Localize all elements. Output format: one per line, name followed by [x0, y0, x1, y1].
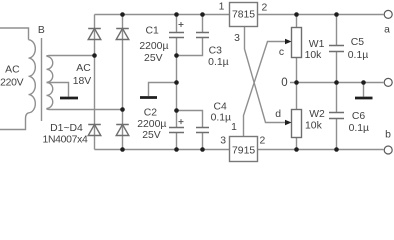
svg-text:2: 2: [260, 136, 266, 147]
wire secondary top lead: [47, 55, 96, 58]
wire top +rail: [95, 14, 384, 16]
wire C5 column: [336, 15, 338, 83]
junction dots bottom rail: [120, 147, 339, 152]
wire bottom -rail: [95, 149, 384, 151]
svg-text:3: 3: [234, 33, 240, 44]
capacitor C2 plates: [169, 128, 184, 133]
diode D bottom-right: [116, 125, 129, 136]
transformer B core: [41, 38, 43, 121]
svg-text:C5: C5: [351, 37, 365, 48]
svg-text:1: 1: [231, 122, 237, 133]
svg-text:1: 1: [219, 1, 225, 12]
svg-text:d: d: [275, 109, 281, 120]
svg-text:c: c: [279, 47, 284, 58]
wire bridge right column: [122, 15, 124, 150]
wire secondary bottom lead: [47, 109, 123, 110]
svg-text:0.1µ: 0.1µ: [349, 123, 369, 134]
ground symbol at 0 rail: [355, 97, 373, 100]
svg-text:C6: C6: [352, 111, 366, 122]
wire 7915 pin1 to W1 wiper (diagonal): [244, 42, 287, 137]
ground symbol at C1/C2 midpoint: [140, 96, 157, 99]
terminal b: [384, 146, 392, 154]
junction dot secondary bottom lead: [120, 107, 125, 112]
wire C6 column: [336, 83, 338, 150]
svg-text:B: B: [38, 25, 45, 36]
wire W2 column: [296, 83, 298, 150]
capacitor C3 plates: [196, 33, 209, 38]
wire C4 column: [177, 111, 203, 150]
svg-text:3: 3: [220, 136, 226, 147]
junction dots center bus: [174, 53, 179, 113]
diode D bottom-left: [88, 125, 101, 136]
wire W1 column: [296, 15, 298, 83]
junction dots 0 rail: [294, 80, 366, 85]
svg-text:AC: AC: [76, 63, 91, 74]
svg-text:18V: 18V: [73, 76, 92, 87]
potentiometer W2 body: [292, 110, 302, 138]
wire center bus C1/C2 column: [176, 15, 178, 150]
regulator U1 7815 box: [230, 3, 258, 27]
svg-text:2200µ: 2200µ: [137, 119, 166, 130]
terminal 0: [384, 78, 392, 86]
transformer B primary winding: [29, 40, 36, 113]
wire middle ground branch: [149, 83, 177, 97]
wire AC mains top lead: [0, 28, 29, 40]
svg-text:0.1µ: 0.1µ: [348, 50, 368, 61]
svg-text:W2: W2: [309, 109, 325, 120]
svg-text:25V: 25V: [142, 130, 161, 141]
wire bridge left column: [94, 15, 96, 150]
svg-text:0: 0: [281, 77, 287, 89]
svg-text:1N4007x4: 1N4007x4: [43, 134, 88, 145]
plus sign C1: [179, 22, 184, 27]
svg-text:b: b: [385, 130, 391, 141]
ground symbol at center tap: [60, 97, 78, 100]
svg-text:7815: 7815: [232, 9, 255, 20]
wire C3 column: [177, 15, 203, 56]
wire right ground stem: [363, 83, 365, 97]
wire secondary center tap: [47, 83, 69, 97]
arrowhead wiper W2: [285, 120, 292, 126]
svg-text:C4: C4: [214, 101, 228, 112]
plus sign C2: [179, 119, 184, 124]
terminal a: [384, 10, 392, 18]
svg-text:C1: C1: [145, 26, 159, 37]
svg-text:220V: 220V: [0, 78, 23, 89]
wire AC mains bottom lead: [0, 113, 29, 130]
capacitor C1 plates: [169, 33, 184, 38]
arrowhead wiper W1: [285, 39, 292, 45]
wire 7815 pin3 to W2 wiper (diagonal): [245, 27, 287, 123]
svg-text:7915: 7915: [232, 146, 255, 157]
svg-text:C2: C2: [144, 108, 158, 119]
svg-text:25V: 25V: [144, 53, 163, 64]
capacitor C5 plates: [329, 46, 344, 52]
svg-text:W1: W1: [309, 39, 325, 50]
transformer B secondary winding: [47, 56, 53, 108]
svg-text:10k: 10k: [305, 120, 323, 131]
svg-text:10k: 10k: [305, 50, 323, 61]
svg-text:D1~D4: D1~D4: [50, 123, 83, 134]
svg-text:a: a: [384, 25, 390, 36]
svg-text:2200µ: 2200µ: [139, 41, 168, 52]
diode D top-left: [88, 29, 101, 40]
capacitor C6 plates: [329, 113, 344, 119]
diode D top-right: [116, 29, 129, 40]
svg-text:0.1µ: 0.1µ: [211, 113, 231, 124]
svg-text:C3: C3: [209, 45, 223, 56]
capacitor C4 plates: [196, 128, 209, 133]
junction dot secondary top lead: [92, 53, 97, 58]
svg-text:AC: AC: [5, 65, 20, 76]
wire 0 rail: [290, 82, 383, 84]
junction dots top rail: [120, 12, 339, 17]
potentiometer W1 body: [292, 28, 302, 58]
regulator U2 7915 box: [230, 137, 258, 162]
svg-text:2: 2: [262, 3, 268, 14]
svg-text:0.1µ: 0.1µ: [208, 57, 228, 68]
